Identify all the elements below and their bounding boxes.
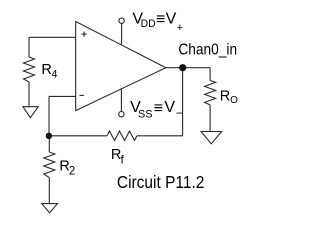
svg-text:Chan0_in: Chan0_in (178, 41, 237, 58)
svg-text:V: V (166, 11, 177, 28)
svg-text:4: 4 (51, 68, 57, 80)
svg-text:f: f (121, 152, 125, 166)
svg-text:≡: ≡ (154, 100, 163, 117)
svg-text:Circuit P11.2: Circuit P11.2 (117, 172, 204, 192)
svg-text:DD: DD (141, 18, 156, 30)
svg-text:R: R (220, 89, 230, 105)
svg-text:+: + (177, 22, 183, 34)
svg-text:≡: ≡ (156, 11, 165, 28)
svg-text:SS: SS (138, 109, 153, 121)
svg-text:−: − (176, 106, 183, 120)
svg-text:R: R (41, 62, 51, 78)
svg-text:V: V (164, 99, 175, 116)
svg-text:2: 2 (69, 165, 75, 177)
svg-text:O: O (230, 95, 238, 106)
